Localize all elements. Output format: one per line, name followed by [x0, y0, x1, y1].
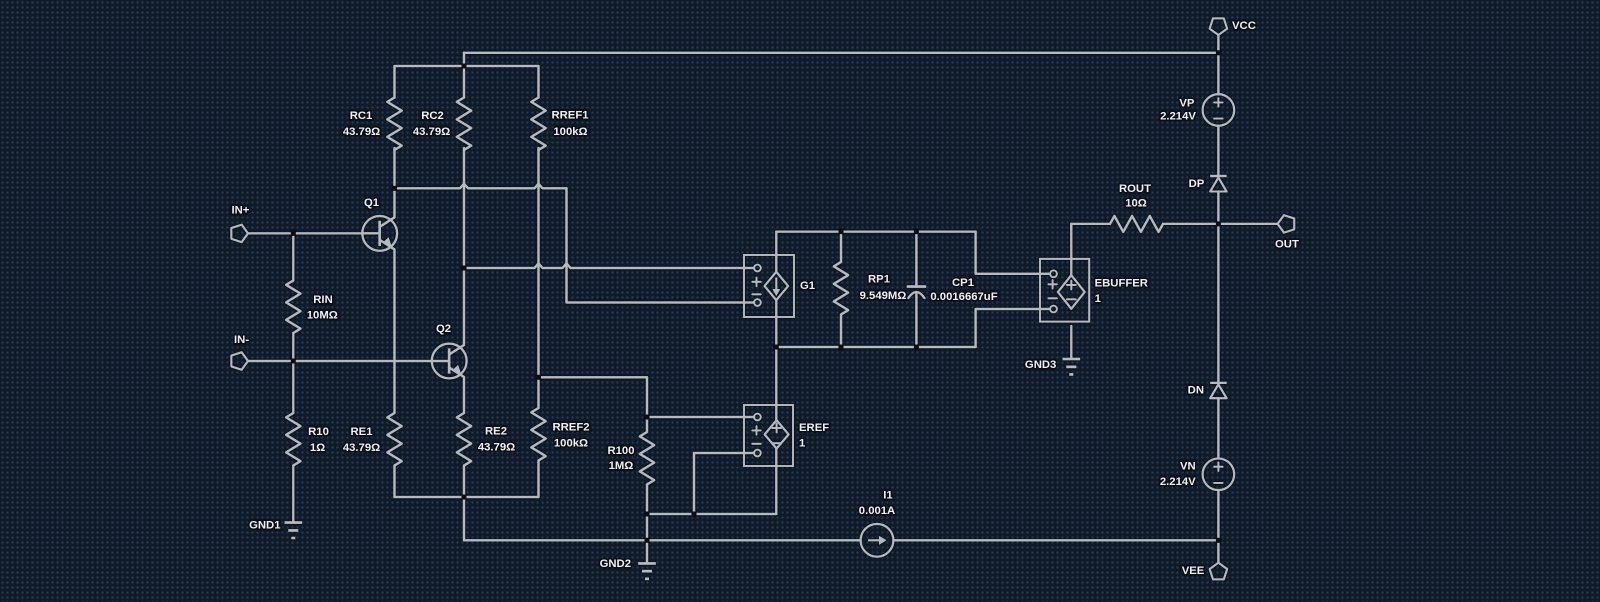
wire VCC top rail — [464, 52, 1218, 54]
wire RE2 to rail — [463, 497, 465, 540]
wire IN- lead — [248, 360, 432, 362]
wire CP1 stubs — [915, 232, 917, 347]
svg-text:RC2: RC2 — [421, 110, 444, 122]
junction RP1 top — [839, 229, 844, 234]
wire DP-DN — [1217, 192, 1219, 383]
svg-text:RREF1: RREF1 — [551, 110, 588, 122]
svg-text:EBUFFER: EBUFFER — [1095, 277, 1148, 289]
junction R100 top — [645, 415, 650, 420]
wire Q1 emitter lead — [393, 249, 395, 413]
resistor RC2 — [413, 98, 471, 151]
dependent source EBUFFER — [1040, 259, 1148, 322]
junction G1-EREF node — [774, 345, 779, 350]
wire G1 top out — [775, 232, 777, 272]
svg-text:10MΩ: 10MΩ — [307, 309, 338, 321]
wire RE bottom bus — [395, 496, 539, 498]
wire EREF minus drop — [693, 453, 695, 514]
ground GND1 — [249, 520, 302, 538]
svg-text:EREF: EREF — [799, 422, 829, 434]
wire EREF plus lead — [647, 416, 754, 418]
junction VEE rail — [1216, 538, 1221, 543]
wire IN+ lead — [248, 232, 378, 234]
resistor RE1 — [343, 413, 402, 466]
wire G1 bottom out — [775, 300, 777, 347]
svg-text:DP: DP — [1189, 178, 1205, 190]
wire VP-DP — [1217, 126, 1219, 176]
wire EREF minus lead — [694, 452, 754, 454]
wire R100 to rail — [646, 514, 648, 540]
transistor Q1 — [362, 197, 397, 251]
junction RC2 top rail — [462, 64, 467, 69]
resistor ROUT — [1110, 183, 1163, 232]
svg-text:43.79Ω: 43.79Ω — [343, 126, 380, 138]
junction R100 bottom — [645, 512, 650, 517]
diode DP — [1189, 176, 1227, 192]
svg-text:GND3: GND3 — [1025, 359, 1056, 371]
dependent source EREF — [744, 405, 829, 466]
junction RIN top — [291, 231, 296, 236]
junction Q1 collector node — [392, 186, 397, 191]
wire VCC stub — [1217, 35, 1219, 95]
wire RE1 bottom stub — [393, 466, 395, 498]
pin OUT — [1275, 215, 1299, 250]
wire RC1 top stub — [393, 66, 395, 98]
voltage source VN — [1160, 459, 1234, 491]
wire DN-VN — [1217, 398, 1219, 458]
svg-text:ROUT: ROUT — [1119, 183, 1151, 195]
svg-text:VCC: VCC — [1232, 20, 1256, 32]
junction RE2 bottom — [462, 495, 467, 500]
svg-text:1: 1 — [1095, 293, 1101, 305]
svg-text:DN: DN — [1188, 385, 1204, 397]
junction RREF2 top — [536, 375, 541, 380]
wire RC2 top stub — [463, 53, 465, 98]
wire G1 plus lead — [464, 263, 754, 268]
wire EBUFFER gnd stub — [1070, 326, 1072, 359]
svg-text:43.79Ω: 43.79Ω — [478, 442, 515, 454]
svg-text:10Ω: 10Ω — [1125, 198, 1147, 210]
wire EREF bottom bus — [647, 513, 776, 515]
svg-text:CP1: CP1 — [952, 277, 974, 289]
svg-text:RE2: RE2 — [485, 426, 507, 438]
svg-text:IN-: IN- — [234, 334, 249, 346]
wire EBUFFER out up — [1070, 224, 1072, 276]
junction Q2 collector node — [462, 266, 467, 271]
svg-text:RC1: RC1 — [350, 110, 373, 122]
junction OUT node — [1216, 221, 1221, 226]
svg-text:100kΩ: 100kΩ — [553, 126, 587, 138]
current source I1 — [859, 490, 895, 557]
svg-text:43.79Ω: 43.79Ω — [343, 442, 380, 454]
pin IN- — [231, 334, 249, 370]
capacitor CP1 — [907, 277, 998, 303]
wire bottom rail right — [894, 539, 1219, 541]
diode DN — [1188, 383, 1227, 398]
ground GND2 — [600, 558, 656, 579]
wire RC2-Q2 collector — [463, 148, 465, 345]
wire R10 lead top — [292, 361, 294, 413]
svg-text:I1: I1 — [883, 490, 892, 502]
pin IN+ — [231, 205, 249, 243]
svg-text:RP1: RP1 — [868, 274, 890, 286]
op-amp input stage VCCS G1 — [744, 255, 815, 317]
resistor RP1 — [834, 262, 907, 315]
wire EBUFFER minus jog — [976, 309, 1050, 347]
wire G1-EREF tie — [775, 347, 777, 421]
wire RREF2 bottom stub — [537, 461, 539, 498]
wire RC1-RREF1 top tie — [395, 65, 539, 67]
wire ROUT lead left — [1071, 224, 1110, 230]
wire Q1 collector jog — [565, 188, 567, 302]
resistor R100 — [607, 432, 654, 485]
junction GND2 rail — [645, 538, 650, 543]
wire Q1 collector bus — [395, 184, 567, 189]
wire ROUT lead right — [1163, 223, 1278, 225]
wire RREF1 top stub — [537, 66, 539, 98]
wire RREF1-RREF2 tie — [537, 148, 539, 408]
resistor RIN — [286, 281, 338, 334]
wire EREF bottom stub — [775, 449, 777, 515]
wire RP1 stubs — [840, 232, 842, 347]
svg-text:VP: VP — [1179, 97, 1195, 109]
power flag VEE — [1182, 563, 1227, 580]
wire R100 bottom stub — [646, 485, 648, 515]
transistor Q2 — [432, 323, 467, 378]
svg-text:Q1: Q1 — [364, 197, 379, 209]
wire EBUFFER plus jog — [976, 232, 1050, 274]
svg-text:43.79Ω: 43.79Ω — [413, 126, 450, 138]
svg-text:2.214V: 2.214V — [1160, 476, 1196, 488]
svg-text:G1: G1 — [800, 280, 815, 292]
voltage source VP — [1160, 94, 1234, 126]
resistor RC1 — [343, 98, 402, 151]
junction VCC rail — [1216, 50, 1221, 55]
resistor RREF2 — [531, 408, 589, 461]
svg-text:GND1: GND1 — [249, 520, 280, 532]
junction RIN bottom R10 — [291, 359, 296, 364]
svg-text:RIN: RIN — [313, 294, 332, 306]
svg-text:R10: R10 — [308, 426, 329, 438]
junction EREF minus branch — [692, 512, 697, 517]
svg-text:9.549MΩ: 9.549MΩ — [860, 290, 907, 302]
svg-text:0.0016667uF: 0.0016667uF — [930, 291, 997, 303]
resistor R10 — [286, 413, 329, 466]
svg-text:IN+: IN+ — [232, 205, 250, 217]
svg-text:RE1: RE1 — [351, 426, 373, 438]
svg-text:VN: VN — [1180, 461, 1196, 473]
svg-text:1: 1 — [799, 437, 805, 449]
svg-text:Q2: Q2 — [436, 323, 451, 335]
power flag VCC — [1210, 18, 1256, 35]
wire G1 out bus bottom — [776, 346, 975, 348]
wire RIN leads — [292, 233, 294, 361]
wire G1 minus lead — [567, 301, 755, 303]
junction CP1 bottom — [914, 345, 919, 350]
wire Q2 emitter lead — [463, 377, 465, 413]
ground GND3 — [1025, 359, 1080, 375]
wire Q1 collector — [393, 148, 395, 217]
wire RREF2 top tie — [539, 376, 648, 378]
resistor RE2 — [457, 413, 515, 466]
svg-text:OUT: OUT — [1275, 239, 1299, 251]
wire GND2 stub — [646, 540, 648, 563]
junction RP1 bottom — [839, 345, 844, 350]
svg-text:1Ω: 1Ω — [310, 442, 325, 454]
svg-text:GND2: GND2 — [600, 558, 631, 570]
svg-text:1MΩ: 1MΩ — [609, 460, 634, 472]
svg-text:0.001A: 0.001A — [859, 505, 895, 517]
resistor RREF1 — [531, 98, 588, 151]
svg-text:2.214V: 2.214V — [1160, 111, 1196, 123]
wire R10 lead bottom — [292, 466, 294, 523]
wire bottom rail left — [464, 539, 861, 541]
svg-text:R100: R100 — [607, 445, 634, 457]
wire VN-VEE — [1217, 490, 1219, 563]
junction CP1 top — [914, 229, 919, 234]
wire R100 top stub — [646, 377, 648, 432]
svg-text:RREF2: RREF2 — [552, 422, 589, 434]
svg-text:100kΩ: 100kΩ — [554, 438, 588, 450]
svg-text:VEE: VEE — [1182, 565, 1205, 577]
wire RE2 bottom stub — [463, 466, 465, 498]
wire G1 out bus top — [776, 230, 975, 232]
